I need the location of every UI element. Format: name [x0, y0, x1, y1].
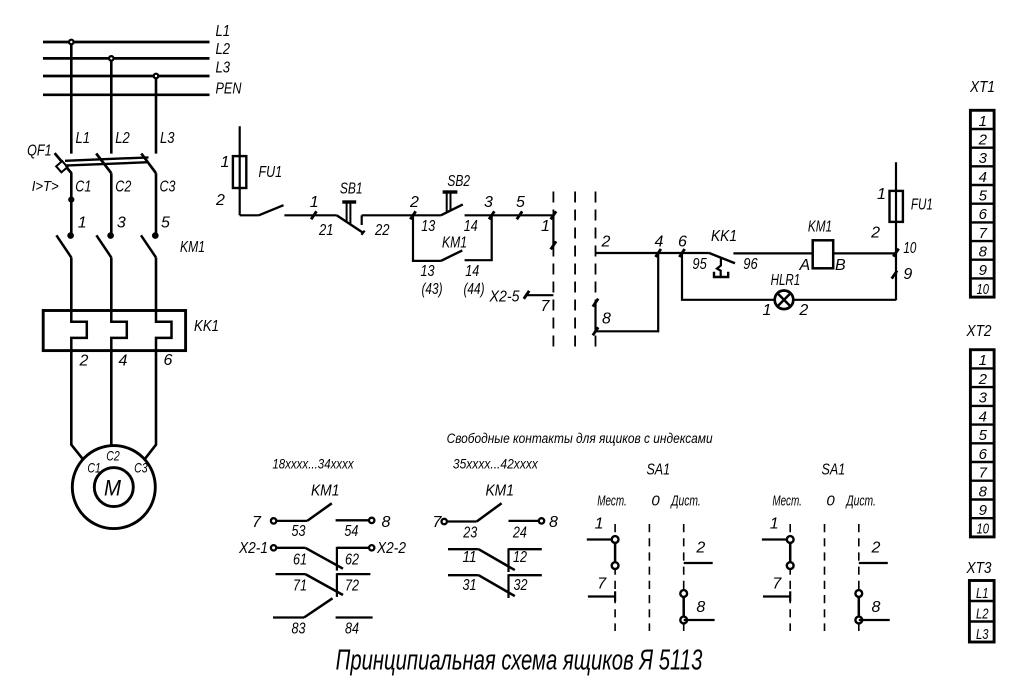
svg-text:5: 5	[161, 215, 170, 232]
svg-text:XT1: XT1	[969, 79, 995, 96]
svg-text:SA1: SA1	[646, 462, 670, 479]
SA1 position line О	[648, 524, 650, 631]
pushbutton SB2 (NO start)	[421, 173, 478, 235]
busbar PEN	[43, 80, 242, 97]
QF1 linkage crossbar	[65, 157, 149, 160]
svg-text:10: 10	[977, 281, 990, 298]
QF1 blade pole 2	[96, 154, 111, 174]
svg-text:KM1: KM1	[485, 483, 514, 500]
svg-text:B: B	[835, 257, 846, 274]
svg-text:9: 9	[979, 502, 988, 519]
svg-text:L1: L1	[976, 585, 989, 602]
node 10 tick	[893, 249, 898, 257]
SA1 bridge Дист	[858, 594, 861, 621]
svg-text:1: 1	[979, 352, 987, 369]
node junction L1	[69, 40, 74, 45]
wire to SB1	[284, 214, 336, 216]
svg-text:Дист.: Дист.	[845, 492, 876, 509]
svg-text:Свободные контакты для ящиков: Свободные контакты для ящиков с индексам…	[447, 431, 713, 446]
svg-text:2: 2	[978, 132, 988, 149]
KK1 heater pole 2	[111, 311, 127, 351]
wire feeder phase 3	[155, 76, 158, 154]
terminal 8 tick lower	[593, 327, 598, 335]
svg-text:13: 13	[421, 263, 435, 280]
svg-text:L1: L1	[216, 23, 231, 40]
svg-text:X2-5: X2-5	[489, 289, 520, 306]
svg-text:83: 83	[292, 621, 306, 638]
svg-text:C2: C2	[115, 178, 131, 195]
svg-text:5: 5	[979, 427, 988, 444]
SB1 actuator cap	[342, 200, 356, 203]
svg-text:9: 9	[979, 262, 988, 279]
wire coil to node 10	[833, 252, 896, 254]
boundary tick lower	[551, 241, 556, 249]
wire pole 3 KM1 to KK1	[155, 258, 158, 311]
svg-text:L2: L2	[115, 130, 130, 147]
svg-text:C1: C1	[87, 460, 101, 476]
SB2 actuator stems	[446, 193, 448, 213]
wire feeder phase 2	[110, 58, 113, 153]
svg-text:7: 7	[979, 465, 988, 482]
svg-text:4: 4	[979, 408, 987, 425]
svg-text:8: 8	[979, 244, 988, 261]
svg-text:SB1: SB1	[340, 180, 363, 197]
switch SA1 (first)	[587, 462, 715, 631]
svg-text:L2: L2	[976, 605, 989, 622]
svg-text:4: 4	[655, 234, 664, 251]
SA1 wire 1	[587, 538, 615, 540]
svg-text:2: 2	[870, 224, 880, 241]
SA1 position line Дист	[683, 524, 685, 631]
wire pole 1 QF1 to KM1	[70, 173, 73, 236]
KM1 aux blade	[441, 250, 462, 261]
svg-text:3: 3	[979, 390, 988, 407]
terminal block XT3	[966, 560, 994, 643]
terminal 8 tick upper	[593, 299, 598, 307]
svg-text:2: 2	[79, 352, 89, 369]
svg-text:14: 14	[464, 218, 478, 235]
svg-text:L2: L2	[216, 41, 231, 58]
QF1 release square	[56, 161, 67, 172]
svg-text:7: 7	[433, 514, 443, 531]
svg-text:QF1: QF1	[27, 142, 51, 159]
busbar L3	[43, 59, 230, 76]
SA1 position line Мест	[789, 524, 791, 631]
svg-text:10: 10	[903, 240, 916, 257]
terminal block XT2	[966, 323, 994, 538]
svg-text:8: 8	[382, 514, 391, 531]
svg-text:31: 31	[463, 577, 477, 594]
svg-text:23: 23	[462, 524, 477, 541]
KM1 aux branch wire right	[465, 215, 492, 260]
svg-text:6: 6	[163, 352, 172, 369]
svg-text:L3: L3	[216, 59, 231, 76]
svg-text:2: 2	[601, 234, 611, 251]
node 2 tick	[410, 211, 415, 219]
svg-text:61: 61	[293, 551, 307, 568]
SA1 wire 7	[763, 595, 790, 597]
svg-text:21: 21	[318, 222, 333, 239]
svg-text:8: 8	[602, 310, 611, 327]
circuit breaker QF1	[27, 142, 156, 195]
wire KK1 to KM1 coil	[733, 252, 812, 254]
svg-text:1: 1	[763, 302, 772, 319]
svg-text:C2: C2	[106, 447, 120, 463]
svg-text:C3: C3	[160, 178, 176, 195]
svg-text:2: 2	[870, 539, 880, 556]
terminal tick 1	[311, 211, 316, 219]
svg-text:Мест.: Мест.	[597, 492, 627, 509]
svg-text:6: 6	[979, 206, 988, 223]
fuse FU1 (left)	[215, 126, 282, 215]
wire KK1 to motor phase 1	[71, 351, 83, 460]
svg-text:2: 2	[695, 539, 705, 556]
svg-text:4: 4	[119, 352, 128, 369]
svg-text:6: 6	[979, 446, 988, 463]
SA1 bridge Дист	[682, 594, 685, 621]
X2-5 wire	[527, 294, 554, 296]
svg-text:8: 8	[979, 483, 988, 500]
svg-text:2: 2	[798, 302, 808, 319]
svg-text:1: 1	[78, 215, 87, 232]
wire node 4 to terminal 8	[596, 253, 659, 331]
svg-text:1: 1	[221, 154, 230, 171]
svg-text:1: 1	[877, 186, 886, 203]
svg-text:9: 9	[903, 266, 912, 283]
disconnect blade	[259, 205, 284, 215]
SB1 blade end tick	[361, 231, 364, 235]
svg-text:8: 8	[549, 514, 558, 531]
node junction L2	[109, 56, 114, 61]
KM1 aux branch wire left	[413, 215, 441, 261]
svg-text:M: M	[104, 476, 122, 501]
svg-text:4: 4	[979, 169, 987, 186]
svg-text:11: 11	[463, 549, 477, 566]
svg-text:54: 54	[344, 523, 358, 540]
svg-text:0: 0	[826, 492, 835, 509]
svg-text:12: 12	[513, 549, 527, 566]
boundary dashed line 3	[595, 192, 597, 347]
KM1 free contact 31-32	[448, 574, 542, 598]
KM1 free contact 61-62	[238, 540, 406, 571]
svg-text:35хххх...42хххх: 35хххх...42хххх	[453, 457, 539, 472]
svg-text:95: 95	[692, 256, 706, 273]
QF1 blade pole 1	[55, 153, 72, 173]
svg-text:KM1: KM1	[180, 239, 205, 256]
contactor KM1 main contact pole 2	[96, 232, 113, 257]
SA1 wire 8	[684, 619, 715, 621]
SB1 actuator stems	[346, 203, 348, 222]
node junction L3	[154, 74, 159, 79]
svg-text:3: 3	[484, 194, 493, 211]
svg-text:0: 0	[651, 492, 660, 509]
wire SB2 to boundary	[465, 214, 554, 216]
contactor KM1 auxiliary holding contact	[413, 215, 492, 298]
svg-text:KK1: KK1	[194, 318, 219, 335]
terminal X2-5	[489, 289, 554, 316]
svg-text:1: 1	[595, 516, 604, 533]
SA1 position line Дист	[858, 524, 860, 631]
svg-text:1: 1	[979, 113, 987, 130]
svg-text:7: 7	[772, 575, 782, 592]
SA1 wire 7	[588, 595, 615, 597]
terminal block XT1	[969, 79, 995, 298]
svg-text:L3: L3	[160, 130, 175, 147]
SA1 wire 8	[859, 619, 890, 621]
wire SB1 to SB2	[362, 214, 441, 216]
wire feeder phase 1	[70, 42, 73, 154]
svg-text:1: 1	[541, 218, 550, 235]
pushbutton SB1 (NC stop)	[337, 180, 365, 234]
KM1 free contact 71-72	[276, 573, 371, 597]
svg-text:7: 7	[252, 514, 262, 531]
svg-text:84: 84	[345, 621, 359, 638]
thermal relay KK1 box	[43, 311, 219, 351]
wire KK1 to motor phase 3	[145, 351, 156, 460]
SB1 fixed seat	[361, 215, 363, 225]
svg-text:3: 3	[979, 150, 988, 167]
svg-text:2: 2	[409, 194, 419, 211]
SA1 bridge Мест	[614, 540, 617, 566]
lamp HLR1	[763, 272, 809, 319]
thermal relay KK1 NC contact	[692, 228, 757, 277]
svg-text:SB2: SB2	[447, 173, 470, 190]
SB1 blade	[337, 215, 364, 233]
KK1 heater pole 3	[156, 311, 172, 351]
svg-text:14: 14	[465, 263, 479, 280]
SA1 bridge Мест	[789, 540, 792, 566]
svg-text:X2-1: X2-1	[238, 540, 268, 557]
switch SA1 (second)	[762, 462, 890, 631]
svg-text:X2-2: X2-2	[376, 540, 406, 557]
svg-text:L3: L3	[976, 626, 989, 643]
svg-text:KK1: KK1	[711, 228, 737, 245]
boundary jumper wire 1	[552, 215, 554, 245]
wire pole 2 KM1 to KK1	[110, 258, 113, 311]
node dot pole 1	[68, 197, 74, 203]
SB2 actuator cap	[443, 190, 458, 193]
svg-text:(44): (44)	[464, 281, 485, 298]
node 3 tick	[489, 211, 494, 219]
svg-text:5: 5	[516, 194, 525, 211]
svg-text:5: 5	[979, 188, 988, 205]
svg-text:FU1: FU1	[911, 197, 933, 214]
boundary tick at wire 1	[551, 211, 556, 219]
svg-text:C1: C1	[75, 178, 91, 195]
svg-text:18хххх...34хххх: 18хххх...34хххх	[272, 457, 354, 472]
svg-text:72: 72	[345, 578, 359, 595]
SB2 blade	[441, 204, 463, 215]
contactor coil KM1	[798, 218, 846, 274]
svg-text:96: 96	[743, 256, 757, 273]
svg-text:8: 8	[871, 599, 880, 616]
KK1 thermal release symbol	[717, 258, 721, 277]
KK1 blade	[709, 253, 735, 263]
svg-text:XT2: XT2	[966, 323, 992, 340]
svg-text:24: 24	[512, 524, 527, 541]
wire lamp branch	[682, 253, 896, 300]
svg-text:C3: C3	[134, 460, 148, 476]
SA1 position line Мест	[614, 524, 616, 631]
KM1 free contact 23-24	[433, 503, 559, 541]
busbar L2	[43, 41, 230, 58]
X2-5 tick	[524, 291, 529, 299]
svg-text:PEN: PEN	[216, 80, 242, 97]
wire 2 to KK1 contact	[596, 252, 709, 254]
SA1 position line О	[824, 524, 826, 631]
wire KK1 to motor phase 2	[110, 351, 113, 446]
fuse FU1 (right)	[870, 162, 933, 300]
svg-text:1: 1	[310, 194, 319, 211]
node 9 tick	[892, 271, 897, 279]
node 4 tick	[656, 249, 661, 257]
svg-text:(43): (43)	[422, 281, 443, 298]
SA1 wire 1	[762, 538, 790, 540]
KM1 free contact 11-12	[448, 548, 542, 572]
QF1 blade pole 3	[141, 154, 156, 174]
svg-text:Принципиальная схема ящиков Я: Принципиальная схема ящиков Я 5113	[336, 645, 703, 676]
node 6 tick	[679, 249, 684, 257]
svg-text:62: 62	[345, 551, 359, 568]
svg-text:KM1: KM1	[442, 234, 467, 251]
busbar L1	[43, 23, 230, 42]
svg-text:71: 71	[293, 578, 307, 595]
svg-text:SA1: SA1	[822, 462, 846, 479]
svg-text:KM1: KM1	[311, 483, 340, 500]
svg-text:2: 2	[978, 371, 988, 388]
svg-text:L1: L1	[76, 130, 91, 147]
wire pole 3 QF1 to KM1	[155, 173, 158, 235]
svg-text:Дист.: Дист.	[670, 492, 701, 509]
svg-text:1: 1	[770, 516, 779, 533]
svg-text:7: 7	[597, 575, 607, 592]
wire FU1 to disconnect	[240, 214, 259, 216]
wire pole 1 KM1 to KK1	[70, 258, 73, 311]
svg-text:Мест.: Мест.	[772, 492, 802, 509]
SA1 wire 2	[684, 562, 713, 564]
svg-text:6: 6	[678, 234, 687, 251]
svg-text:13: 13	[421, 218, 435, 235]
contactor KM1 main contact pole 1	[56, 232, 73, 257]
KK1 heater pole 1	[71, 311, 87, 351]
svg-text:7: 7	[979, 225, 988, 242]
svg-text:I>T>: I>T>	[32, 178, 59, 195]
svg-text:2: 2	[215, 192, 225, 209]
svg-text:XT3: XT3	[966, 560, 992, 577]
wire pole 2 QF1 to KM1	[110, 173, 113, 235]
SA1 wire 2	[859, 562, 888, 564]
svg-text:10: 10	[977, 521, 990, 538]
svg-text:7: 7	[541, 298, 551, 315]
svg-text:53: 53	[292, 523, 306, 540]
svg-text:HLR1: HLR1	[771, 272, 801, 289]
svg-text:A: A	[798, 257, 810, 274]
contactor KM1 main contact pole 3	[141, 232, 205, 257]
svg-text:KM1: KM1	[808, 218, 832, 235]
KM1 free contact 53-54	[252, 503, 391, 540]
svg-text:22: 22	[374, 222, 389, 239]
boundary dashed line 1	[552, 192, 554, 347]
KM1 free contact 83-84	[273, 598, 373, 637]
boundary dashed line 2	[574, 192, 576, 347]
motor M	[72, 446, 155, 529]
svg-text:FU1: FU1	[259, 164, 283, 181]
svg-text:32: 32	[514, 577, 528, 594]
svg-text:3: 3	[117, 214, 126, 231]
svg-text:8: 8	[696, 599, 705, 616]
node 5 tick	[517, 211, 522, 219]
